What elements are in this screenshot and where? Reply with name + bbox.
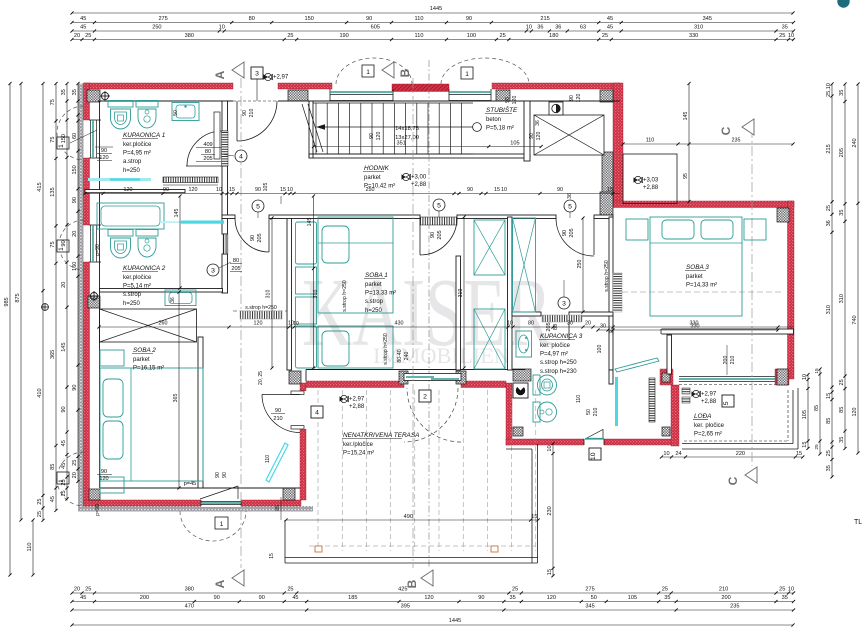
svg-text:14x18,75: 14x18,75 — [395, 126, 419, 132]
bottom dim row 1 — [72, 592, 793, 594]
svg-text:35: 35 — [839, 209, 845, 215]
hall dim chain y193 — [85, 193, 620, 195]
svg-text:25: 25 — [61, 479, 67, 485]
wall KUP2 south / SOBA2 north (y288) — [100, 289, 223, 293]
svg-text:C: C — [726, 476, 740, 485]
svg-text:15: 15 — [280, 187, 286, 193]
LODJA right vdim — [807, 375, 809, 449]
KUP2 washbasin (on south wall) — [165, 290, 196, 306]
left dim col 6 (inner small) — [77, 84, 79, 482]
sliding door SOBA3 to shower area — [616, 357, 659, 367]
lintel hatch above SOBA1 door — [420, 217, 457, 225]
svg-text:25: 25 — [826, 205, 832, 211]
svg-text:110: 110 — [576, 395, 582, 403]
svg-text:10: 10 — [788, 33, 794, 39]
shutter boxes west — [57, 137, 69, 149]
svg-text:4: 4 — [315, 409, 319, 416]
svg-text:25: 25 — [779, 587, 785, 593]
svg-text:20: 20 — [74, 33, 80, 39]
svg-text:90: 90 — [466, 16, 472, 22]
svg-text:150: 150 — [61, 134, 67, 143]
KUP3 washbasin — [516, 331, 532, 357]
svg-text:120: 120 — [189, 187, 198, 193]
sliding door terrace (teal glass) — [404, 374, 461, 381]
svg-text:90: 90 — [275, 408, 281, 414]
SOBA3 upper dims 110/235 — [623, 143, 793, 145]
svg-text:10: 10 — [663, 451, 669, 457]
right dim col 1 (inner) — [831, 84, 833, 477]
svg-text:95: 95 — [683, 173, 689, 179]
door KUP1 — [186, 165, 222, 167]
KUP1 radiator — [163, 177, 218, 183]
svg-text:120: 120 — [576, 94, 582, 103]
shutter arcs above north windows — [336, 58, 412, 84]
SOBA3 south wall (y329) — [613, 329, 794, 334]
SOBA3 ceiling dashed line — [622, 291, 781, 293]
svg-text:10: 10 — [293, 321, 299, 327]
terrace north wall red (west of sliding door) — [306, 381, 404, 388]
KUP3 east wall (x609) lower — [609, 316, 613, 370]
stairs STUBISTE treads — [313, 102, 473, 104]
LODJA north-east red pier — [775, 369, 789, 385]
svg-text:25: 25 — [602, 33, 608, 39]
svg-text:h=250: h=250 — [123, 301, 141, 307]
svg-text:90: 90 — [61, 240, 67, 246]
svg-text:1: 1 — [465, 71, 469, 78]
svg-text:s.strop h=250: s.strop h=250 — [604, 260, 610, 292]
svg-text:s.strop: s.strop — [123, 292, 142, 298]
svg-text:+2,88: +2,88 — [643, 185, 659, 191]
bottom dim row 2 — [72, 601, 793, 603]
svg-text:1: 1 — [366, 69, 370, 76]
ceiling strip corridor hatched — [240, 311, 282, 319]
svg-text:45: 45 — [80, 595, 86, 601]
svg-text:310: 310 — [313, 290, 319, 299]
svg-text:parket: parket — [364, 175, 381, 181]
svg-text:5: 5 — [723, 401, 730, 405]
west wall red segments — [84, 83, 90, 120]
svg-text:15: 15 — [826, 393, 832, 399]
svg-text:36: 36 — [170, 297, 176, 303]
svg-text:345: 345 — [585, 604, 594, 610]
wall KUP1/KUP2 east (x222) — [222, 101, 228, 131]
KUP3 west wall red — [506, 383, 512, 445]
svg-text:10: 10 — [501, 187, 507, 193]
SOBA1 bed2 — [318, 326, 393, 368]
level +3,00 HODNIK — [402, 174, 407, 179]
KUP1 vanity shelf — [214, 112, 220, 159]
KUP1 washbasin — [172, 103, 199, 121]
svg-text:145: 145 — [683, 112, 689, 121]
svg-text:P=15,24 m²: P=15,24 m² — [343, 451, 374, 457]
svg-text:10: 10 — [216, 187, 222, 193]
svg-text:TL: TL — [854, 519, 862, 526]
svg-text:380: 380 — [185, 33, 194, 39]
svg-text:120: 120 — [124, 187, 133, 193]
svg-text:100: 100 — [467, 33, 476, 39]
svg-text:205: 205 — [231, 266, 240, 272]
svg-text:235: 235 — [730, 604, 739, 610]
svg-text:10: 10 — [547, 445, 553, 451]
svg-text:105: 105 — [628, 595, 637, 601]
svg-text:90: 90 — [214, 595, 220, 601]
svg-text:260: 260 — [159, 321, 168, 327]
svg-text:25,10: 25,10 — [826, 83, 832, 97]
svg-text:240: 240 — [852, 138, 858, 147]
svg-text:90: 90 — [101, 148, 107, 154]
svg-text:15: 15 — [547, 569, 553, 575]
svg-text:740: 740 — [852, 315, 858, 324]
svg-text:200: 200 — [721, 595, 730, 601]
svg-text:s.strop h=230: s.strop h=230 — [540, 369, 577, 375]
corridor vdim 310 — [271, 218, 273, 368]
svg-text:90: 90 — [430, 232, 436, 238]
svg-text:205: 205 — [203, 156, 212, 162]
SOBA2 wardrobe X — [100, 309, 197, 342]
svg-text:60: 60 — [72, 133, 78, 139]
svg-text:parket: parket — [365, 282, 382, 288]
svg-text:90: 90 — [562, 230, 568, 236]
svg-text:s.strop: s.strop — [365, 299, 384, 305]
svg-text:90: 90 — [215, 472, 221, 478]
svg-text:45: 45 — [607, 25, 613, 31]
svg-text:90: 90 — [529, 133, 535, 139]
svg-text:5: 5 — [256, 203, 260, 210]
svg-text:1445: 1445 — [430, 6, 442, 12]
svg-text:3: 3 — [211, 267, 215, 274]
svg-text:120: 120 — [512, 96, 518, 105]
SOBA2 vdim 365 — [178, 292, 180, 488]
bottom dim row 4 (1445) — [72, 624, 793, 626]
svg-text:3: 3 — [562, 300, 566, 307]
svg-text:25: 25 — [826, 450, 832, 456]
svg-text:LOĐA: LOĐA — [694, 413, 711, 420]
LODJA window teal — [679, 378, 775, 380]
svg-text:35: 35 — [839, 437, 845, 443]
svg-text:110: 110 — [646, 138, 655, 144]
svg-text:10: 10 — [219, 25, 225, 31]
svg-text:215: 215 — [826, 144, 832, 153]
right dim col 2 — [844, 84, 846, 448]
svg-text:310: 310 — [266, 290, 272, 299]
left dim col 3 — [42, 84, 44, 521]
left dim col 110 — [32, 520, 34, 575]
wall KUP1 south (y189) — [85, 190, 185, 193]
svg-text:15: 15 — [802, 442, 808, 448]
box 3 top — [251, 67, 263, 79]
svg-text:P=14,33 m²: P=14,33 m² — [686, 283, 717, 289]
svg-text:36: 36 — [537, 25, 543, 31]
svg-text:15: 15 — [269, 553, 275, 559]
hall south wall y215 (W5) — [222, 215, 235, 219]
svg-text:80: 80 — [528, 321, 534, 327]
SOBA2 bed — [100, 368, 203, 481]
svg-text:120: 120 — [852, 408, 858, 417]
svg-text:+2,88: +2,88 — [349, 404, 365, 410]
svg-text:20: 20 — [608, 329, 614, 335]
stair break line — [302, 104, 317, 152]
svg-text:36: 36 — [535, 120, 541, 126]
svg-text:985: 985 — [4, 297, 10, 306]
svg-text:120: 120 — [424, 595, 433, 601]
terrace north wall red (east of sliding door) — [461, 381, 506, 388]
top dim row 4 — [72, 39, 793, 41]
svg-text:25: 25 — [287, 33, 293, 39]
svg-text:210: 210 — [730, 356, 736, 365]
svg-text:90: 90 — [250, 235, 256, 241]
shower area towel radiator — [649, 378, 655, 422]
svg-text:430: 430 — [395, 321, 404, 327]
svg-text:365: 365 — [173, 394, 179, 403]
svg-text:160: 160 — [72, 262, 78, 271]
svg-text:35: 35 — [72, 89, 78, 95]
stair dims — [314, 146, 542, 148]
svg-text:250: 250 — [366, 187, 375, 193]
gray outer band bottom wall — [78, 506, 313, 512]
void X next to stairs — [534, 115, 604, 155]
svg-text:25: 25 — [287, 587, 293, 593]
svg-text:90: 90 — [255, 187, 261, 193]
SOBA3 bed — [650, 217, 742, 316]
LODJA parapet — [682, 443, 793, 445]
svg-text:s.strop h=250: s.strop h=250 — [383, 333, 389, 365]
svg-text:25: 25 — [61, 490, 67, 496]
svg-text:425: 425 — [398, 587, 407, 593]
svg-text:25: 25 — [85, 587, 91, 593]
gray outer band left wall — [78, 84, 84, 512]
svg-text:230: 230 — [547, 506, 553, 515]
svg-text:120: 120 — [99, 155, 108, 161]
svg-text:HODNIK: HODNIK — [364, 165, 390, 172]
svg-text:+2,88: +2,88 — [701, 399, 717, 405]
SOBA1 east wall (x456) — [456, 256, 461, 370]
s.strop dashed line corridor — [233, 310, 287, 312]
KUP1 bidet — [136, 101, 158, 108]
svg-text:P=2,65 m²: P=2,65 m² — [694, 432, 722, 438]
right small col 2 — [819, 369, 821, 454]
svg-text:45: 45 — [292, 595, 298, 601]
SOBA2 east wall red (faces terrace) — [300, 383, 306, 500]
svg-text:75: 75 — [50, 241, 56, 247]
svg-text:120: 120 — [376, 132, 382, 141]
svg-text:35: 35 — [61, 89, 67, 95]
svg-text:415: 415 — [37, 182, 43, 191]
svg-text:15: 15 — [607, 187, 613, 193]
svg-text:10: 10 — [788, 587, 794, 593]
svg-text:20: 20 — [585, 321, 591, 327]
svg-text:345: 345 — [703, 16, 712, 22]
corridor/SOBA1 west wall (x287) — [287, 217, 292, 370]
teal glass south window — [201, 502, 241, 504]
level +3,03 east — [634, 177, 639, 182]
right dim col 3 (740) — [857, 84, 859, 453]
svg-text:+3,03: +3,03 — [643, 178, 659, 184]
svg-text:90: 90 — [61, 406, 67, 412]
svg-text:36: 36 — [826, 220, 832, 226]
SOBA3 ceiling strip hatch — [613, 273, 622, 312]
svg-text:36: 36 — [555, 25, 561, 31]
svg-text:240: 240 — [404, 352, 410, 361]
svg-text:275: 275 — [585, 587, 594, 593]
svg-text:35: 35 — [826, 465, 832, 471]
svg-text:120: 120 — [547, 595, 556, 601]
KUP3 south wall red — [506, 439, 676, 445]
svg-text:30: 30 — [567, 321, 573, 327]
svg-text:90: 90 — [163, 187, 169, 193]
windows west wall — [90, 120, 92, 158]
svg-text:80: 80 — [205, 149, 211, 155]
svg-text:90: 90 — [369, 133, 375, 139]
svg-text:210: 210 — [719, 587, 728, 593]
svg-text:190: 190 — [339, 33, 348, 39]
svg-text:215: 215 — [540, 16, 549, 22]
inner face terrace wall — [306, 369, 525, 371]
teal glass — [449, 91, 491, 93]
inner face north wall — [98, 100, 233, 102]
ceiling strip KUP3 top hatched — [542, 315, 582, 322]
entry landing left wall x309 — [308, 101, 310, 158]
svg-text:P=5,14 m²: P=5,14 m² — [123, 284, 151, 290]
east block wall red (x613) — [613, 83, 623, 203]
svg-text:275: 275 — [158, 16, 167, 22]
section line C — [751, 128, 753, 466]
svg-text:310: 310 — [694, 25, 703, 31]
svg-text:20: 20 — [61, 282, 67, 288]
stair right wall — [524, 101, 530, 161]
KUP3 washing machine — [513, 383, 528, 398]
svg-text:ker. pločice: ker. pločice — [540, 343, 571, 349]
terrace drain squares — [315, 546, 322, 552]
svg-text:a.strop: a.strop — [123, 159, 142, 165]
svg-text:15: 15 — [531, 514, 537, 520]
mid dim chain y327 — [99, 326, 793, 328]
top dim row 1 (1445) — [72, 12, 793, 14]
window break in south wall — [201, 499, 241, 507]
circled 3 KUP2 door — [207, 264, 219, 276]
svg-text:90: 90 — [72, 384, 78, 390]
svg-text:85: 85 — [826, 418, 832, 424]
svg-text:90: 90 — [259, 595, 265, 601]
SOBA2 bedside tables — [100, 350, 124, 366]
KUP3 shower glass cyan — [615, 377, 618, 426]
svg-text:135: 135 — [50, 187, 56, 196]
svg-text:1: 1 — [58, 144, 65, 148]
svg-text:ker. pločice: ker. pločice — [694, 423, 725, 429]
SOBA2 pillows — [103, 379, 123, 417]
top right teal logo dot — [837, 0, 849, 8]
svg-text:105: 105 — [510, 141, 519, 147]
terrace tile grid dashed — [317, 390, 319, 551]
svg-text:605: 605 — [371, 25, 380, 31]
svg-text:10: 10 — [526, 25, 532, 31]
svg-text:35: 35 — [664, 595, 670, 601]
svg-text:85: 85 — [814, 405, 820, 411]
svg-text:+2,97: +2,97 — [273, 75, 289, 81]
KUP3 toilet — [533, 375, 540, 395]
svg-text:210: 210 — [249, 109, 255, 118]
column symbol box with circle — [549, 102, 563, 115]
svg-text:105: 105 — [802, 410, 808, 419]
svg-text:10: 10 — [287, 187, 293, 193]
svg-text:+2,97: +2,97 — [349, 397, 365, 403]
corridor2 vdim 250 — [582, 218, 584, 312]
svg-text:90: 90 — [557, 187, 563, 193]
door SOBA1 — [419, 218, 421, 255]
svg-text:45: 45 — [80, 25, 86, 31]
svg-text:P=4,97 m²: P=4,97 m² — [540, 352, 568, 358]
svg-text:1445: 1445 — [449, 618, 461, 624]
svg-text:875: 875 — [15, 293, 21, 302]
svg-text:110: 110 — [27, 543, 33, 552]
SOBA3 east wall red — [788, 201, 795, 379]
SOBA1 side shelves — [296, 222, 317, 264]
svg-text:50: 50 — [591, 595, 597, 601]
svg-text:A: A — [213, 579, 227, 588]
svg-text:120: 120 — [254, 321, 263, 327]
svg-text:351: 351 — [396, 141, 405, 147]
svg-text:63: 63 — [580, 25, 586, 31]
svg-text:+3,00: +3,00 — [411, 175, 427, 181]
wardrobe nook east wall (x507) — [508, 217, 513, 370]
svg-text:365: 365 — [50, 350, 56, 359]
left dim col 985 — [9, 84, 11, 576]
svg-text:STUBIŠTE: STUBIŠTE — [486, 105, 518, 114]
svg-text:110: 110 — [265, 455, 271, 463]
svg-text:210: 210 — [593, 408, 599, 417]
svg-text:145: 145 — [61, 342, 67, 351]
shutter arc below south window — [180, 511, 246, 541]
svg-text:205: 205 — [257, 233, 263, 242]
svg-text:205: 205 — [839, 148, 845, 157]
LODJA bottom dim — [662, 456, 803, 458]
stair direction line with start circle — [318, 126, 473, 128]
corridor east wall (x609) — [609, 217, 613, 312]
svg-text:80: 80 — [249, 16, 255, 22]
svg-text:120: 120 — [536, 132, 542, 141]
svg-text:C: C — [719, 126, 733, 135]
svg-text:85: 85 — [275, 505, 281, 511]
svg-text:P=4,95 m²: P=4,95 m² — [123, 151, 151, 157]
level +2,97 top entrance — [264, 74, 269, 79]
svg-text:75: 75 — [50, 137, 56, 143]
svg-text:20, 25: 20, 25 — [258, 371, 264, 385]
svg-text:20: 20 — [72, 231, 78, 237]
svg-text:25: 25 — [839, 379, 845, 385]
inner face south wall SOBA2 — [100, 487, 301, 489]
survey symbol KUP1 — [101, 92, 108, 99]
svg-text:90: 90 — [222, 472, 228, 478]
svg-text:120: 120 — [99, 476, 108, 482]
shower area east wall x667 — [667, 335, 672, 374]
svg-text:10: 10 — [507, 321, 513, 327]
svg-text:210: 210 — [273, 416, 282, 422]
nook wardrobes white X — [474, 220, 505, 275]
level +2,97 terrace — [340, 396, 345, 401]
KUP1 glass screen cyan — [88, 178, 151, 181]
svg-text:IMMOBILIEN: IMMOBILIEN — [373, 343, 510, 368]
door opening in KUP3 south wall — [584, 438, 604, 446]
svg-text:10: 10 — [590, 452, 597, 460]
svg-text:90: 90 — [569, 95, 575, 101]
section line A — [240, 78, 242, 568]
bottom dim row 3 — [72, 609, 793, 611]
svg-text:200: 200 — [723, 356, 729, 365]
box 10 rotated below KUP3 door — [589, 448, 601, 460]
svg-text:490: 490 — [404, 514, 413, 520]
svg-text:145: 145 — [174, 209, 180, 218]
door corridor top (from HODNIK) — [268, 218, 270, 252]
svg-text:145: 145 — [307, 218, 313, 227]
